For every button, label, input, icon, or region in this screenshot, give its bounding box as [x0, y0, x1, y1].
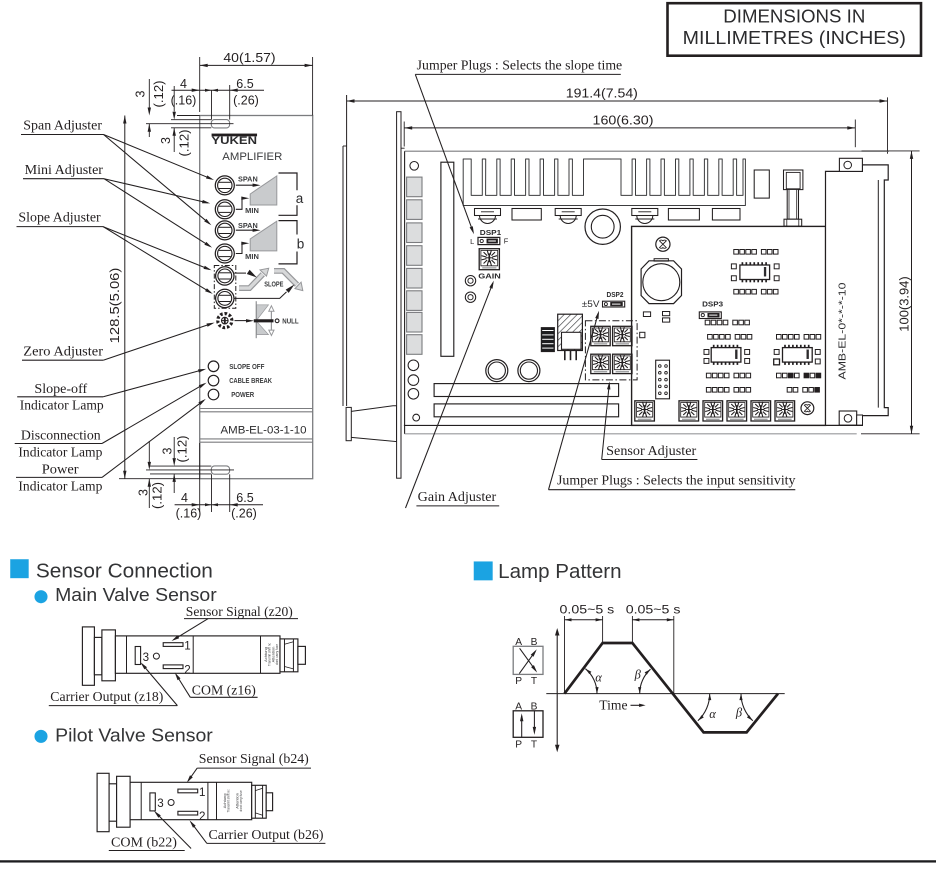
test point rings [465, 276, 475, 303]
gain adjuster potentiometer [479, 249, 499, 270]
transformer with hatching [558, 314, 583, 360]
svg-text:Span Adjuster: Span Adjuster [23, 117, 102, 132]
page bottom rule [0, 860, 936, 862]
Time axis label [599, 698, 645, 713]
svg-text:Indicator Lamp: Indicator Lamp [20, 398, 104, 413]
svg-text:AMB-EL-03-1-10: AMB-EL-03-1-10 [221, 424, 307, 436]
label Span Adjuster [21, 117, 214, 225]
svg-text:b: b [297, 237, 305, 252]
component block 2 [668, 209, 699, 221]
svg-text:Slope-off: Slope-off [34, 381, 87, 396]
sensor adjuster pot 2 [613, 326, 632, 345]
lamp text labels [229, 362, 272, 399]
extension lines at bottom slot [119, 466, 234, 479]
svg-text:3: 3 [137, 489, 151, 496]
DSP3 label [702, 300, 723, 309]
arrow min-a to ramp [236, 197, 250, 210]
svg-text:191.4(7.54): 191.4(7.54) [566, 87, 638, 101]
svg-text:β: β [634, 668, 642, 682]
svg-text:(.16): (.16) [176, 507, 202, 521]
slope time dimension left [560, 602, 615, 693]
label Disconnection Indicator Lamp [15, 383, 207, 460]
svg-text:(.12): (.12) [176, 436, 190, 463]
IC cluster top [731, 250, 779, 295]
dimension 3(.12) lower pair at bottom slot [137, 436, 190, 510]
SPAN label a [238, 174, 258, 183]
svg-text:4: 4 [180, 77, 187, 91]
front plate edge-on [343, 95, 347, 406]
label Jumper Plugs input sensitivity [549, 311, 796, 490]
svg-text:B: B [531, 637, 538, 648]
heatsink with fins [463, 159, 745, 206]
AMPLIFIER text [222, 151, 282, 163]
svg-text:6.5: 6.5 [236, 491, 253, 505]
svg-text:160(6.30): 160(6.30) [593, 113, 654, 127]
indicator lamp slope off [208, 361, 219, 372]
svg-text:SLOPE OFF: SLOPE OFF [229, 362, 265, 371]
model number AMB-EL-03-1-10 [221, 424, 307, 436]
rotated model text AMB-EL [838, 282, 849, 379]
dimension 4(.16) / 6.5(.26) top [171, 77, 264, 120]
card guide bar [441, 162, 454, 356]
svg-text:B: B [531, 701, 538, 712]
svg-text:(.26): (.26) [231, 507, 257, 521]
component block 3 [712, 209, 740, 221]
NULL label [282, 317, 299, 326]
section heading Sensor Connection [10, 559, 213, 582]
card slot lower [434, 404, 618, 417]
svg-text:4: 4 [181, 491, 188, 505]
bottom mounting slot [211, 466, 229, 474]
slope time dimension right [626, 602, 681, 694]
connector mounting tab bottom [839, 411, 862, 425]
svg-text:MILLIMETRES (INCHES): MILLIMETRES (INCHES) [683, 27, 906, 48]
svg-text:Carrier Output (b26): Carrier Output (b26) [209, 827, 324, 843]
null symbol triangles [256, 301, 268, 338]
MIN label b [245, 252, 259, 261]
svg-text:P: P [515, 676, 522, 687]
beta angle arc 2 [735, 694, 753, 721]
sensor connector nut [280, 639, 298, 672]
svg-text:40(1.57): 40(1.57) [223, 51, 275, 65]
note box: DIMENSIONS IN MILLIMETRES (INCHES) [668, 3, 922, 56]
svg-text:3: 3 [159, 137, 173, 144]
subsection heading Main Valve Sensor [35, 585, 217, 605]
svg-text:Jumper Plugs : Selects the slo: Jumper Plugs : Selects the slope time [417, 57, 623, 72]
svg-text:T: T [531, 676, 537, 687]
svg-text:β: β [735, 706, 743, 720]
dimension 100(3.94) height [861, 151, 920, 434]
svg-text:Time: Time [599, 698, 627, 713]
sensor label band rotated text [217, 782, 244, 819]
svg-text:GAIN: GAIN [478, 271, 501, 280]
indicator lamp power [208, 389, 219, 400]
extension lines at top slot [146, 116, 234, 128]
label Zero Adjuster [22, 323, 215, 361]
electrolytic capacitor [641, 259, 681, 304]
label Gain Adjuster [406, 281, 500, 508]
sensor pin 3 [150, 793, 164, 811]
edge connector pin squares [407, 177, 422, 354]
MIN label a [245, 206, 259, 215]
svg-text:POWER: POWER [231, 390, 255, 399]
svg-text:Gain Adjuster: Gain Adjuster [418, 489, 497, 504]
svg-text:Indicator Lamp: Indicator Lamp [18, 479, 102, 494]
svg-text:(.12): (.12) [151, 482, 165, 509]
GAIN label [478, 271, 501, 280]
svg-text:3: 3 [161, 447, 175, 454]
arrow span-b to ramp [236, 229, 261, 232]
arrow min-b to ramp [236, 242, 250, 254]
svg-text:MIN: MIN [245, 252, 259, 261]
component right of heatsink [754, 170, 769, 198]
svg-text:F: F [504, 237, 509, 246]
svg-text:SPAN: SPAN [238, 174, 258, 183]
svg-text:Zero Adjuster: Zero Adjuster [23, 344, 103, 359]
svg-text:YUKEN: YUKEN [211, 135, 257, 147]
bracket group a [279, 173, 304, 215]
svg-text:Sensor Signal (z20): Sensor Signal (z20) [186, 604, 293, 620]
svg-text:A: A [515, 637, 522, 648]
label Carrier Output z18 [49, 662, 178, 705]
jumper DSP1 L/F [470, 237, 509, 246]
screw top [656, 237, 670, 251]
dimension 128.5(5.06) height [108, 116, 127, 479]
svg-text:Mini Adjuster: Mini Adjuster [25, 162, 104, 177]
jumper DSP2 with +-5V [582, 299, 625, 309]
min adjuster knob a [215, 200, 234, 219]
alpha angle arc 1 [585, 669, 602, 694]
svg-text:Sensor Adjuster: Sensor Adjuster [606, 443, 696, 458]
toroid inductor [585, 209, 620, 244]
sensor adjuster pot block frame [585, 321, 637, 380]
SLOPE label [264, 279, 283, 288]
valve symbol parallel [513, 701, 543, 750]
label COM z16 [175, 673, 258, 699]
svg-text:3: 3 [143, 651, 149, 664]
label Power Indicator Lamp [16, 399, 206, 494]
svg-text:CABLE BREAK: CABLE BREAK [229, 376, 272, 385]
svg-text:128.5(5.06): 128.5(5.06) [108, 268, 122, 344]
svg-text:Lamp Pattern: Lamp Pattern [498, 561, 621, 583]
svg-text:Indicator Lamp: Indicator Lamp [18, 444, 102, 459]
trapezoidal lamp waveform [565, 643, 779, 732]
svg-text:DSP2: DSP2 [607, 290, 624, 299]
svg-text:T: T [531, 740, 537, 751]
label Sensor Signal b24 [187, 751, 311, 783]
support post [784, 170, 803, 226]
YUKEN logo [211, 134, 257, 148]
subsection heading Pilot Valve Sensor [35, 725, 213, 745]
mount rings [486, 360, 540, 382]
label Sensor Adjuster [602, 381, 698, 459]
IC cluster middle-left [704, 320, 752, 392]
dimension 4(.16) / 6.5(.26) bottom [175, 443, 263, 521]
span adjuster knob a [215, 176, 234, 195]
component block 1 [512, 209, 541, 221]
label Slope-off Indicator Lamp [17, 369, 206, 413]
transistor clamp 1 [475, 209, 501, 224]
gain ramp symbol a [250, 176, 277, 205]
sensor pin 2 [178, 810, 206, 823]
svg-text:1: 1 [199, 786, 205, 799]
svg-text:(.26): (.26) [233, 94, 259, 108]
svg-text:DIMENSIONS IN: DIMENSIONS IN [723, 6, 865, 27]
null indicator bar [254, 319, 279, 323]
svg-text:Main Valve Sensor: Main Valve Sensor [55, 585, 217, 605]
svg-text:MIN: MIN [245, 206, 259, 215]
sensor pin hole [153, 653, 159, 659]
slope adjuster block frame [214, 266, 236, 309]
svg-text:P: P [515, 740, 522, 751]
svg-text:Slope Adjuster: Slope Adjuster [18, 210, 101, 225]
slope adjuster knob lower [216, 289, 234, 307]
SPAN label b [238, 221, 258, 230]
svg-text:COM (b22): COM (b22) [111, 834, 177, 850]
time axis horizontal [546, 693, 784, 695]
svg-text:dont carry fuse: dont carry fuse [239, 790, 243, 811]
sensor pin 3 [135, 647, 149, 665]
svg-text:α: α [595, 671, 602, 685]
sensor hex nut flange [102, 630, 116, 681]
svg-text:a: a [296, 191, 304, 206]
svg-text:AMPLIFIER: AMPLIFIER [222, 151, 282, 163]
dimension 191.4(7.54) overall width [347, 87, 888, 154]
svg-text:(.12): (.12) [152, 81, 166, 108]
svg-text:(.12): (.12) [178, 130, 192, 157]
dimension 3(.12) upper pair at top slot [134, 79, 192, 157]
panel separator lines lower [200, 439, 313, 442]
sensor adjuster pot 3 [591, 354, 610, 373]
label Slope Adjuster [17, 210, 213, 294]
svg-text:0.05~5 s: 0.05~5 s [560, 602, 615, 616]
sensor collar [109, 784, 117, 821]
sensor connector tip [298, 646, 306, 664]
daughter board outline [632, 226, 826, 425]
svg-text:L: L [470, 237, 474, 246]
svg-text:0.05~5 s: 0.05~5 s [626, 602, 681, 616]
svg-text:DSP3: DSP3 [702, 300, 723, 309]
slope rise chevron symbol [239, 268, 269, 288]
front panel outline [200, 116, 313, 479]
valve symbol crossed [513, 637, 543, 687]
card slot upper [434, 384, 618, 397]
panel separator lines upper [200, 409, 313, 412]
label COM b22 [109, 811, 191, 851]
svg-text:6.5: 6.5 [236, 77, 253, 91]
span adjuster knob b [215, 221, 234, 240]
sensor adjuster pot 4 [613, 354, 632, 373]
svg-text:2: 2 [184, 664, 190, 677]
svg-text:3: 3 [134, 90, 148, 97]
svg-text:Disconnection: Disconnection [21, 428, 101, 443]
svg-text:NULL: NULL [282, 317, 299, 326]
label Carrier Output b26 [190, 820, 326, 843]
card extractor handle [346, 406, 397, 442]
dimension 160(6.30) board width [404, 113, 855, 147]
connector mounting tab top [839, 158, 862, 171]
svg-text:DSP1: DSP1 [480, 228, 502, 237]
sensor main body [115, 636, 280, 673]
label Jumper Plugs slope time [415, 57, 622, 234]
svg-text:SPAN: SPAN [238, 221, 258, 230]
svg-text:Sensor Connection: Sensor Connection [36, 561, 213, 583]
min adjuster knob b [215, 244, 234, 263]
svg-text:1: 1 [184, 640, 190, 653]
svg-text:COM (z16): COM (z16) [192, 683, 256, 699]
sensor connector nut [252, 785, 267, 818]
pin header [656, 360, 670, 399]
transistor clamp 3 [632, 209, 658, 224]
svg-text:Power: Power [42, 462, 79, 477]
connector rail edge-on [397, 112, 405, 479]
alpha angle arc 2 [698, 694, 716, 721]
svg-text:dont carry fuse: dont carry fuse [275, 644, 279, 665]
dimension 40(1.57) top width [200, 51, 313, 116]
sensor collar [94, 637, 102, 674]
signal axis vertical [555, 628, 560, 752]
jumper DSP3 [699, 312, 721, 319]
svg-text:AMB-EL-0*-*-*-10: AMB-EL-0*-*-*-10 [838, 282, 849, 379]
top mounting slot [211, 120, 229, 128]
DSP2 label [607, 290, 624, 299]
small pads left [640, 312, 670, 338]
indicator lamp cable break [208, 375, 219, 386]
board hole top [410, 162, 419, 171]
board holes lower [408, 360, 420, 421]
bracket group b [279, 221, 305, 264]
svg-text:3: 3 [157, 797, 163, 810]
sensor body flange large [82, 627, 94, 685]
svg-text:A: A [515, 701, 522, 712]
screw bottom [801, 402, 814, 415]
label Sensor Signal z20 [172, 604, 299, 641]
svg-text:Pilot Valve Sensor: Pilot Valve Sensor [55, 725, 213, 745]
svg-text:±5V: ±5V [582, 299, 600, 309]
arrow span-a to ramp [236, 184, 261, 187]
svg-text:100(3.94): 100(3.94) [898, 276, 912, 331]
label Mini Adjuster [23, 162, 212, 248]
sensor pin 2 [163, 664, 191, 677]
transistor clamp 2 [555, 209, 581, 224]
svg-text:Transmit shift nc: Transmit shift nc [227, 789, 231, 813]
svg-text:2: 2 [199, 810, 205, 823]
section heading Lamp Pattern [474, 561, 622, 583]
pcb board outline [404, 151, 889, 434]
sensor pin 1 [178, 786, 206, 799]
sensor adjuster pot 1 [591, 326, 610, 345]
DSP1 label [480, 228, 502, 237]
sensor body flange large [97, 773, 109, 831]
rear connector body [826, 165, 889, 426]
black ribbed component [541, 328, 554, 352]
sensor pin 1 [163, 640, 191, 653]
arrow zero knob to null bar [235, 319, 255, 322]
bottom pot row [635, 401, 795, 421]
null vertical double arrow [269, 306, 274, 336]
svg-text:SLOPE: SLOPE [264, 279, 283, 288]
sensor main body [130, 782, 252, 819]
svg-text:α: α [709, 707, 716, 721]
arrow slope-upper to chevron [234, 270, 257, 278]
slope adjuster knob upper [216, 267, 234, 285]
beta angle arc 1 [634, 668, 651, 694]
svg-text:Jumper Plugs : Selects the inp: Jumper Plugs : Selects the input sensiti… [557, 472, 796, 487]
svg-text:Carrier Output (z18): Carrier Output (z18) [50, 689, 163, 705]
svg-text:Sensor Signal (b24): Sensor Signal (b24) [199, 751, 309, 767]
sensor label band rotated text [261, 636, 279, 673]
sensor connector tip [266, 793, 272, 811]
zero adjuster knurled knob [216, 312, 234, 330]
IC cluster middle-right [774, 335, 821, 393]
slope fall chevron symbol [274, 271, 303, 291]
gain ramp symbol b [250, 221, 277, 251]
sensor pin hole [168, 800, 174, 806]
arrow slope-lower to chevron [234, 284, 294, 298]
sensor hex nut flange [117, 776, 131, 827]
